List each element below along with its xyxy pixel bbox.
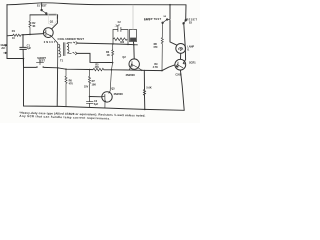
wire branch T1 to rail — [56, 68, 58, 106]
svg-text:COIL UNDER TEST: COIL UNDER TEST — [58, 37, 85, 41]
wire Q3 base — [90, 96, 102, 98]
svg-text:S3: S3 — [189, 22, 193, 25]
switch S4 SHORT TEST — [36, 61, 43, 65]
lamp I1 — [176, 44, 186, 54]
node junction rail — [144, 109, 146, 111]
transistor Q1 — [43, 28, 53, 38]
node junction at x23.5 jog — [23, 58, 25, 60]
transistor Q2 — [129, 59, 139, 69]
label SR1 — [144, 18, 150, 22]
svg-text:1K: 1K — [107, 54, 110, 57]
node junction jack2 wire — [112, 62, 114, 64]
arrow AC input — [4, 45, 7, 47]
resistor R8 — [161, 24, 163, 71]
capacitor C2 branch — [113, 27, 128, 44]
resistor R6 — [65, 69, 67, 107]
node dots bus — [57, 67, 59, 69]
label C2 — [115, 21, 122, 28]
svg-text:5.6K: 5.6K — [146, 87, 151, 90]
label R5 47K — [95, 63, 100, 69]
svg-text:5µF: 5µF — [94, 103, 99, 106]
label R6 470 — [69, 79, 74, 85]
transformer T1 primary — [57, 42, 58, 68]
label R3 — [106, 51, 110, 57]
label I1 — [187, 45, 194, 51]
wire coil top — [78, 43, 138, 45]
svg-text:S1 TEST: S1 TEST — [37, 4, 47, 7]
label T1 — [60, 58, 64, 62]
svg-text:Q1: Q1 — [50, 20, 54, 24]
node junction R2 branch — [29, 34, 31, 36]
node dots on coil wire — [112, 43, 114, 45]
wire SCR cathode to rail — [180, 70, 184, 110]
label R1 — [12, 30, 16, 40]
label 5.6K — [146, 87, 151, 90]
label Q2 — [122, 56, 135, 77]
label S1 TEST — [37, 4, 47, 7]
svg-text:Q2: Q2 — [122, 56, 126, 59]
wire top rail — [7, 3, 186, 5]
switch S3 RESET — [185, 20, 186, 21]
svg-text:470: 470 — [69, 83, 74, 86]
switch S1 TEST — [42, 3, 47, 15]
rectifier box SR1 — [130, 29, 137, 41]
label C3 — [94, 100, 99, 106]
svg-text:2N2608: 2N2608 — [126, 73, 136, 77]
label R7 10K — [92, 80, 97, 86]
svg-text:SCR1: SCR1 — [189, 62, 196, 65]
svg-text:2N2608: 2N2608 — [114, 92, 124, 96]
svg-text:4.7K: 4.7K — [153, 66, 158, 69]
wire collector branch x144 — [144, 70, 146, 109]
svg-text:I1: I1 — [187, 48, 190, 51]
svg-text:10K: 10K — [92, 84, 97, 87]
wire coil bottom — [77, 53, 113, 62]
svg-text:4K: 4K — [32, 25, 35, 28]
jack J2 — [70, 52, 77, 55]
label C1 4uF — [27, 43, 32, 50]
gate arrowhead — [183, 63, 185, 65]
label RESET — [186, 18, 197, 25]
svg-text:2N307: 2N307 — [44, 40, 56, 44]
label 117 V AC — [0, 43, 7, 50]
wire lamp feed — [170, 5, 177, 46]
caption line 2 — [19, 114, 110, 121]
wire lamp to SCR — [180, 53, 182, 59]
wire y15.5 — [30, 14, 58, 16]
svg-text:47K: 47K — [95, 66, 100, 69]
transformer T1 secondary — [67, 43, 70, 54]
resistor R5 — [93, 68, 104, 71]
capacitor C3 — [86, 97, 93, 108]
SCR1 — [175, 59, 186, 70]
wire bottom rail — [24, 59, 185, 111]
svg-text:LAMP TEST: LAMP TEST — [144, 17, 161, 21]
node junction base wire — [89, 96, 91, 98]
wire reset line — [183, 5, 186, 64]
label COIL UNDER TEST — [58, 37, 85, 41]
svg-text:470: 470 — [153, 46, 158, 49]
label SHORT TEST — [37, 57, 46, 62]
label 400 — [120, 41, 125, 44]
label SCR1 — [175, 62, 196, 77]
svg-text:.1µF: .1µF — [115, 23, 121, 27]
svg-text:S2: S2 — [163, 16, 166, 18]
label LAMP TEST — [144, 16, 167, 21]
svg-text:25V: 25V — [84, 85, 89, 88]
svg-text:400: 400 — [120, 41, 125, 44]
wire main y37 from border to Q1 — [7, 34, 43, 36]
svg-text:Q3: Q3 — [111, 87, 115, 90]
caption line 1 — [19, 111, 145, 118]
svg-text:C2: C2 — [118, 21, 122, 24]
resistor R7 — [89, 70, 91, 97]
svg-text:T1: T1 — [60, 58, 64, 62]
node junction C1 branch — [22, 34, 24, 36]
wire gate line — [144, 65, 174, 71]
label R2 — [32, 22, 36, 28]
node top rail lamp — [169, 4, 171, 6]
label 4.7K — [153, 63, 159, 69]
smudge pentagon artifact — [48, 13, 57, 25]
resistor R1 — [13, 34, 21, 36]
wire bias bus — [24, 67, 145, 70]
wire left border 117V line — [6, 5, 8, 59]
svg-text:10: 10 — [12, 37, 15, 40]
capacitor C1 — [20, 35, 27, 68]
resistor R3 — [112, 44, 114, 70]
svg-text:4µF: 4µF — [27, 46, 32, 50]
jack J1 — [70, 42, 78, 45]
svg-text:TEST: TEST — [39, 59, 46, 62]
label Q1 — [44, 20, 56, 45]
switch S2 LAMP TEST — [166, 19, 167, 20]
transformer T1 core — [63, 43, 65, 56]
transistor Q3 — [102, 92, 112, 102]
label Q3 — [111, 87, 123, 96]
label R8 470 — [153, 43, 158, 49]
resistor R4 between risers — [113, 38, 127, 41]
resistor R2 — [29, 15, 31, 35]
svg-text:R1: R1 — [12, 30, 16, 33]
wire lower-left jog — [7, 58, 24, 60]
